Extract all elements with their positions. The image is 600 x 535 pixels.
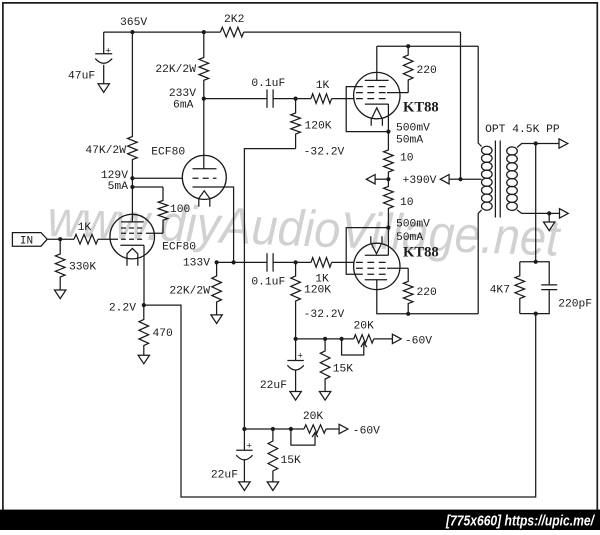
capacitor 0.1uF upper <box>266 89 268 107</box>
wire plate node to 100R <box>132 186 163 188</box>
tube ECF80 pentode envelope <box>110 214 155 259</box>
svg-text:IN: IN <box>20 235 33 247</box>
node secondary top tap <box>534 141 538 145</box>
node 133V left <box>215 260 219 264</box>
wire KT88 lower cathode rise <box>387 228 389 256</box>
wire OPT primary bottom lead <box>478 210 481 314</box>
ground under secondary <box>544 222 555 231</box>
ECF80 triode heater <box>199 191 210 207</box>
svg-text:OPT 4.5K PP: OPT 4.5K PP <box>485 124 560 136</box>
wire cap to 1K lower <box>273 261 311 263</box>
wire OPT primary top lead <box>478 46 481 146</box>
resistor R 120K upper <box>291 99 301 149</box>
wire KT88 lower plate lead <box>377 280 478 314</box>
wire OPT secondary bottom lead <box>517 210 560 214</box>
wire KT88 lower g2 to 220R <box>387 267 408 269</box>
svg-text:133V: 133V <box>183 257 210 269</box>
arrow -60V lower <box>339 424 348 433</box>
svg-text:15K: 15K <box>281 455 302 467</box>
KT88 lower plate bar <box>365 279 387 281</box>
node cathode sense mid <box>386 177 390 181</box>
capacitor 22uF upper <box>287 360 303 362</box>
node pentode plate / 100R junction <box>130 185 134 189</box>
connector IN <box>12 233 47 247</box>
OPT core <box>494 141 496 218</box>
capacitor 220pF <box>536 262 550 285</box>
svg-text:50mA: 50mA <box>396 135 423 147</box>
svg-text:+390V: +390V <box>403 175 437 187</box>
svg-text:233V: 233V <box>169 88 196 100</box>
node input junction <box>58 237 62 241</box>
KT88 upper cathode bar <box>365 103 389 105</box>
svg-text:+: + <box>246 441 252 452</box>
wire bias1 row <box>296 338 354 340</box>
wire 133V row <box>217 261 267 263</box>
wire 47uF to ground <box>103 65 105 84</box>
resistor R 15K lower <box>268 429 278 474</box>
tube ECF80 triode envelope <box>182 155 226 199</box>
node 365V/22K junction <box>202 30 206 34</box>
node bias1 left <box>294 337 298 341</box>
wire IN to grid <box>47 238 74 240</box>
ECF80 pentode grid g3 (dashed) <box>121 227 143 229</box>
KT88 lower g1 dashed <box>356 261 387 263</box>
svg-text:50mA: 50mA <box>396 232 423 244</box>
node triode cathode T <box>232 260 236 264</box>
resistor R 470 <box>139 305 149 355</box>
ground under 22uF upper <box>290 392 301 401</box>
arrow output top <box>559 139 568 148</box>
node feedback top <box>534 260 538 264</box>
ECF80 pentode cathode bar <box>120 244 144 246</box>
potentiometer 20K lower <box>304 425 326 433</box>
svg-text:0.1uF: 0.1uF <box>251 78 285 90</box>
wire pot2 to -60V arrow <box>326 428 339 430</box>
wire KT88 upper cathode drop <box>387 104 389 132</box>
KT88 upper heater <box>371 108 382 126</box>
ECF80 pentode grid g2 (dashed) <box>121 232 143 234</box>
svg-text:-60V: -60V <box>405 335 432 347</box>
node 220R upper top <box>406 44 410 48</box>
footer bar <box>0 510 600 530</box>
node 220R lower bottom <box>406 312 410 316</box>
KT88 lower g3 dashed <box>356 273 387 275</box>
wire OPT secondary top lead <box>517 144 559 148</box>
node B+ junction <box>458 177 462 181</box>
arrow -60V upper <box>392 334 401 343</box>
wire cap to 1K grid stopper <box>273 98 311 100</box>
wire 15K2 to ground <box>272 474 274 482</box>
node grid node upper <box>294 97 298 101</box>
wire 1K to KT88 lower g1 <box>332 261 355 263</box>
svg-text:4K7: 4K7 <box>490 284 510 296</box>
ground under 15K upper <box>319 392 330 401</box>
capacitor C 47uF <box>95 53 112 55</box>
wire B+ riser <box>460 32 462 179</box>
wire KT88 upper g2 to 220R <box>387 92 408 94</box>
arrow output bottom <box>560 209 569 218</box>
svg-text:10: 10 <box>400 152 414 164</box>
svg-text:500mV: 500mV <box>396 123 430 135</box>
tube KT88 upper envelope <box>354 72 400 118</box>
svg-text:220: 220 <box>417 287 438 299</box>
node 2.2V <box>142 303 146 307</box>
wire triode plate riser <box>203 99 205 169</box>
svg-text:15K: 15K <box>333 363 354 375</box>
ground under 470 <box>138 355 149 364</box>
svg-text:330K: 330K <box>69 262 96 274</box>
svg-text:22K/2W: 22K/2W <box>169 286 210 298</box>
resistor R 100 <box>158 187 168 233</box>
OPT primary winding <box>482 146 493 154</box>
KT88 upper g1 dashed <box>356 98 387 100</box>
wire KT88 upper plate to OPT <box>377 45 478 47</box>
node KT88 lower cathode junction <box>386 226 390 230</box>
svg-text:220: 220 <box>417 65 438 77</box>
resistor R 10 upper <box>384 132 394 180</box>
resistor R 1K upper grid stopper <box>311 94 332 104</box>
wire 47uF stem <box>103 32 105 54</box>
wire feedback tap <box>535 144 537 262</box>
svg-text:[775x660] https://upic.me/: [775x660] https://upic.me/ <box>445 512 595 529</box>
wire KT88 lower g3 tie <box>346 228 388 275</box>
wire KT88 upper g3 tie <box>346 87 388 132</box>
ground under 22uF lower <box>239 482 250 491</box>
svg-text:+: + <box>105 46 111 57</box>
svg-text:47uF: 47uF <box>68 71 95 83</box>
ground under 47uF <box>98 84 109 93</box>
svg-text:KT88: KT88 <box>403 245 439 261</box>
resistor R 330K <box>55 239 65 281</box>
resistor R 22K/2W lower <box>212 262 222 315</box>
svg-text:0.1uF: 0.1uF <box>251 276 285 288</box>
test arrow at cathode mid <box>375 178 388 180</box>
svg-text:-32.2V: -32.2V <box>304 309 345 321</box>
svg-text:20K: 20K <box>354 320 375 332</box>
node bias1 pot <box>340 337 344 341</box>
svg-text:ECF80: ECF80 <box>151 146 185 158</box>
svg-text:ECF80: ECF80 <box>162 242 196 254</box>
resistor R 15K upper <box>320 339 330 381</box>
resistor R 120K lower <box>291 262 301 339</box>
wire 129V node to triode grid <box>132 177 182 179</box>
svg-text:22K/2W: 22K/2W <box>155 64 196 76</box>
svg-text:20K: 20K <box>303 411 324 423</box>
svg-text:47K/2W: 47K/2W <box>85 145 126 157</box>
node 129V (pentode plate) <box>130 176 134 180</box>
svg-text:-60V: -60V <box>353 425 380 437</box>
ECF80 triode grid (dashed) <box>193 177 217 179</box>
resistor R 1K input <box>74 234 98 244</box>
svg-text:5mA: 5mA <box>108 181 129 193</box>
ECF80 pentode plate bar <box>121 221 144 223</box>
svg-text:500mV: 500mV <box>396 219 430 231</box>
resistor R 10 lower <box>384 179 394 227</box>
wire 365V rail <box>104 31 221 33</box>
wire secondary ground stem <box>548 213 550 222</box>
wire 1K to KT88 g1 <box>332 98 355 100</box>
wire 22uF2 stem <box>243 429 245 450</box>
resistor 2K2 <box>220 27 243 37</box>
wire feedback loop <box>144 305 536 497</box>
wire KT88 upper plate riser <box>376 46 378 80</box>
node secondary bottom <box>547 211 551 215</box>
node 365V/47uF junction <box>130 30 134 34</box>
svg-text:1K: 1K <box>78 222 92 234</box>
arrow +390V <box>440 175 449 184</box>
svg-text:220pF: 220pF <box>558 299 592 311</box>
ECF80 triode plate bar <box>193 168 217 170</box>
wire 22uF1 to ground <box>295 370 297 392</box>
KT88 upper plate bar <box>365 79 389 81</box>
resistor R 220 lower <box>403 268 413 314</box>
resistor R 1K lower grid stopper <box>311 258 332 268</box>
wire 100R to pentode screen <box>146 232 163 234</box>
wire 233V to coupling cap <box>204 98 267 100</box>
wire triode cathode to 133V node <box>216 187 234 262</box>
svg-text:6mA: 6mA <box>173 100 194 112</box>
wire pot1 to -60V arrow <box>374 338 393 340</box>
svg-text:365V: 365V <box>120 17 147 29</box>
svg-text:10: 10 <box>400 197 414 209</box>
svg-text:120K: 120K <box>304 285 331 297</box>
svg-text:470: 470 <box>153 328 174 340</box>
KT88 upper g2 dashed <box>356 92 387 94</box>
wire B+ to OPT center tap <box>461 178 482 180</box>
ground under 330K <box>55 290 66 299</box>
svg-text:2K2: 2K2 <box>224 14 244 26</box>
KT88 lower cathode bar <box>365 254 389 256</box>
svg-text:2.2V: 2.2V <box>109 302 136 314</box>
svg-text:-32.2V: -32.2V <box>304 147 345 159</box>
wire pentode cathode drop <box>143 245 145 305</box>
node grid node lower <box>294 260 298 264</box>
svg-text:1K: 1K <box>316 80 330 92</box>
wire 4K7 branch top <box>520 261 536 263</box>
wire 330K to ground <box>59 282 61 291</box>
wire 15K1 to ground <box>324 381 326 392</box>
resistor R 220 upper <box>403 46 413 92</box>
node feedback bottom <box>534 312 538 316</box>
ECF80 pentode grid g1 (dashed) <box>121 238 143 240</box>
ground under 22K/2W lower <box>211 315 222 324</box>
KT88 upper g3 dashed <box>356 86 387 88</box>
wire plate node down to pentode plate <box>131 178 133 222</box>
KT88 lower heater <box>371 236 382 254</box>
wire 22uF2 to ground <box>243 460 245 482</box>
node bias2 15K <box>271 427 275 431</box>
KT88 lower g2 dashed <box>356 267 387 269</box>
OPT secondary winding <box>507 147 518 155</box>
ECF80 triode cathode bar <box>193 186 216 188</box>
node 233V <box>202 97 206 101</box>
node bias2 pot <box>289 427 293 431</box>
svg-text:22uF: 22uF <box>211 470 238 482</box>
tube KT88 lower envelope <box>354 243 400 289</box>
wire 120K upper to bias riser <box>244 149 295 429</box>
svg-text:22uF: 22uF <box>260 380 287 392</box>
wire bias2 row <box>244 428 304 430</box>
resistor R 4K7 <box>515 262 525 314</box>
svg-text:KT88: KT88 <box>403 99 439 115</box>
node KT88 upper cathode junction <box>386 130 390 134</box>
svg-text:100: 100 <box>170 204 191 216</box>
wire 22uF1 stem <box>295 339 297 361</box>
capacitor 22uF lower <box>236 449 252 451</box>
resistor R 47K/2W <box>128 32 138 178</box>
wire 4K7 branch bottom <box>520 313 536 315</box>
svg-text:120K: 120K <box>304 121 331 133</box>
resistor R 22K/2W upper <box>199 32 209 99</box>
ground under 15K lower <box>267 482 278 491</box>
node bias1 15K <box>323 337 327 341</box>
capacitor 0.1uF lower <box>266 253 268 271</box>
ECF80 pentode heater <box>127 248 138 265</box>
potentiometer 20K upper <box>354 335 374 343</box>
node bias2 left <box>242 427 246 431</box>
svg-text:+: + <box>297 351 303 362</box>
